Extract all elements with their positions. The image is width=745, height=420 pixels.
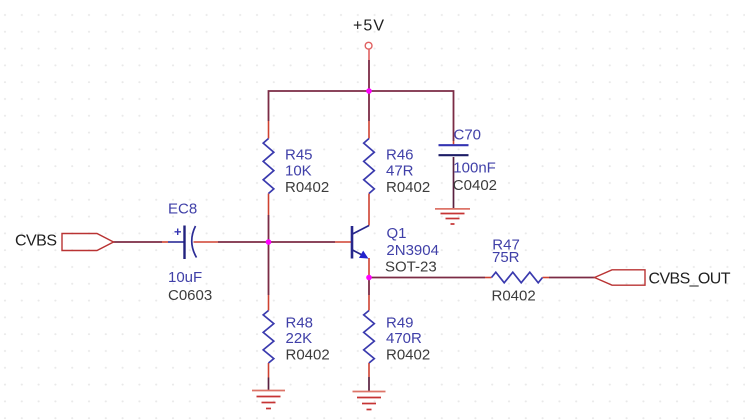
svg-text:2N3904: 2N3904 xyxy=(386,242,439,259)
svg-text:C0402: C0402 xyxy=(453,177,497,194)
svg-text:R0402: R0402 xyxy=(285,179,329,196)
svg-text:R0402: R0402 xyxy=(286,347,330,364)
svg-text:R48: R48 xyxy=(286,314,314,331)
svg-text:R49: R49 xyxy=(386,314,414,331)
svg-text:C70: C70 xyxy=(454,127,482,144)
svg-text:470R: 470R xyxy=(386,330,422,347)
svg-text:22K: 22K xyxy=(286,330,313,347)
svg-text:100nF: 100nF xyxy=(453,160,496,177)
svg-text:SOT-23: SOT-23 xyxy=(385,259,437,276)
svg-text:CVBS_OUT: CVBS_OUT xyxy=(649,270,731,287)
svg-text:10uF: 10uF xyxy=(168,269,202,286)
svg-text:R45: R45 xyxy=(285,146,313,163)
svg-text:C0603: C0603 xyxy=(168,287,212,304)
svg-text:10K: 10K xyxy=(285,163,312,180)
svg-text:R0402: R0402 xyxy=(492,288,536,305)
svg-text:EC8: EC8 xyxy=(168,200,197,217)
svg-text:+5V: +5V xyxy=(353,18,384,35)
svg-text:CVBS: CVBS xyxy=(15,232,57,249)
svg-text:Q1: Q1 xyxy=(387,225,407,242)
svg-text:75R: 75R xyxy=(492,249,520,266)
svg-text:R0402: R0402 xyxy=(386,347,430,364)
svg-text:R0402: R0402 xyxy=(386,179,430,196)
svg-text:47R: 47R xyxy=(386,163,414,180)
svg-text:R46: R46 xyxy=(386,146,414,163)
